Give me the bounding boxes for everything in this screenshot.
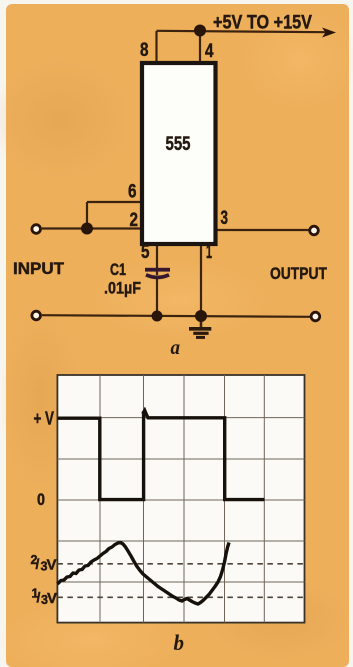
svg-text:4: 4 [205, 41, 214, 62]
svg-text:a: a [171, 335, 181, 359]
svg-text:/: / [37, 589, 41, 605]
svg-text:6: 6 [128, 182, 137, 203]
svg-text:/: / [36, 556, 40, 572]
svg-text:5: 5 [141, 242, 150, 263]
svg-text:555: 555 [166, 134, 191, 155]
svg-text:2: 2 [130, 210, 139, 231]
svg-text:8: 8 [140, 40, 149, 61]
svg-text:+5V TO +15V: +5V TO +15V [213, 13, 312, 34]
svg-text:V: V [47, 590, 57, 607]
svg-text:b: b [174, 630, 185, 655]
svg-text:INPUT: INPUT [13, 260, 64, 278]
svg-text:OUTPUT: OUTPUT [270, 264, 327, 283]
svg-text:.01µF: .01µF [104, 279, 141, 298]
svg-text:0: 0 [37, 490, 45, 509]
svg-text:V: V [47, 557, 57, 574]
svg-text:3: 3 [221, 208, 229, 229]
svg-text:C1: C1 [110, 260, 126, 279]
svg-text:+ V: + V [34, 409, 55, 429]
svg-text:1: 1 [206, 242, 212, 263]
